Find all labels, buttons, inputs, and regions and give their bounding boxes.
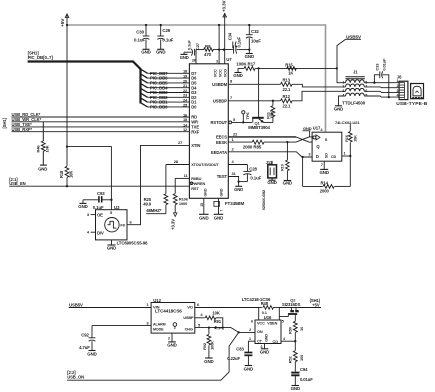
svg-text:GND: GND	[180, 55, 189, 60]
svg-text:GND: GND	[219, 188, 223, 196]
svg-text:C33: C33	[374, 63, 379, 71]
svg-text:0.1uF: 0.1uF	[134, 38, 145, 43]
svg-text:GND: GND	[265, 334, 269, 342]
svg-text:GND: GND	[334, 107, 343, 112]
svg-text:C34: C34	[228, 32, 233, 40]
svg-text:48MHZ*: 48MHZ*	[146, 208, 162, 213]
svg-text:GND: GND	[283, 181, 292, 186]
svg-text:EEDATA: EEDATA	[211, 150, 227, 155]
svg-text:U12: U12	[153, 298, 161, 303]
svg-text:22.1: 22.1	[283, 87, 292, 92]
svg-text:GND: GND	[199, 215, 208, 220]
svg-text:+5V: +5V	[60, 18, 66, 27]
svg-text:22.1: 22.1	[283, 104, 292, 109]
svg-text:TP1: TP1	[217, 325, 225, 330]
svg-text:XTIN: XTIN	[191, 143, 200, 148]
svg-text:C29: C29	[162, 28, 170, 33]
svg-text:PIC_DB0: PIC_DB0	[150, 105, 168, 110]
svg-text:10uF: 10uF	[251, 39, 261, 44]
svg-text:GND: GND	[319, 170, 328, 175]
svg-text:C27: C27	[195, 43, 200, 50]
svg-text:VCO: VCO	[222, 69, 227, 77]
svg-text:100: 100	[299, 355, 304, 361]
svg-text:VCC: VCC	[257, 322, 265, 326]
svg-text:10K: 10K	[45, 145, 50, 152]
svg-text:J6: J6	[397, 75, 402, 80]
svg-text:USB5V: USB5V	[69, 302, 83, 307]
svg-text:USB-TYPE-B: USB-TYPE-B	[396, 101, 428, 107]
svg-text:GND: GND	[233, 73, 242, 78]
svg-text:4: 4	[396, 94, 398, 98]
svg-text:GND: GND	[260, 350, 269, 355]
svg-text:R12: R12	[283, 94, 291, 99]
svg-text:6: 6	[251, 319, 253, 323]
svg-text:C83: C83	[236, 346, 244, 351]
svg-text:R18: R18	[59, 170, 64, 178]
svg-text:D0: D0	[191, 105, 197, 110]
svg-text:5: 5	[282, 319, 284, 323]
svg-text:VO: VO	[187, 304, 193, 309]
svg-text:GND: GND	[204, 188, 208, 196]
svg-text:25: 25	[200, 203, 204, 207]
svg-text:R14: R14	[321, 180, 329, 185]
svg-text:7: 7	[220, 210, 224, 212]
svg-text:TP6: TP6	[245, 112, 250, 120]
svg-text:GND: GND	[291, 386, 300, 391]
svg-text:GND: GND	[38, 167, 47, 172]
svg-text:+3.3V: +3.3V	[171, 219, 176, 230]
svg-text:+3.3V: +3.3V	[221, 1, 226, 12]
svg-text:GND: GND	[245, 54, 254, 59]
svg-text:+5V: +5V	[312, 302, 320, 307]
svg-text:R52: R52	[287, 356, 292, 364]
svg-text:2000 R85: 2000 R85	[243, 144, 262, 149]
svg-text:0.01uF: 0.01uF	[382, 58, 387, 71]
svg-text:OE: OE	[97, 212, 103, 217]
svg-text:ALARM: ALARM	[153, 322, 166, 326]
svg-text:2: 2	[396, 84, 398, 88]
svg-text:C30: C30	[136, 30, 144, 35]
svg-text:RSTOUT: RSTOUT	[210, 120, 227, 125]
svg-text:3: 3	[216, 59, 218, 63]
svg-text:ON: ON	[257, 329, 263, 334]
svg-text:3: 3	[342, 89, 344, 93]
svg-text:C92: C92	[81, 332, 89, 337]
svg-text:GND: GND	[156, 50, 165, 55]
svg-text:SD: SD	[324, 153, 328, 158]
svg-text:C28: C28	[249, 166, 257, 171]
svg-text:GND: GND	[107, 246, 116, 251]
svg-text:1500: 1500	[269, 110, 274, 119]
svg-text:1K: 1K	[288, 71, 293, 76]
svg-text:D: D	[316, 154, 319, 159]
svg-text:PIC_DB[0..7]: PIC_DB[0..7]	[28, 55, 54, 60]
svg-text:CD: CD	[331, 155, 337, 159]
svg-text:USB5V: USB5V	[346, 34, 362, 39]
svg-text:R15: R15	[285, 62, 293, 67]
svg-text:100K R17: 100K R17	[236, 62, 256, 67]
svg-text:2000: 2000	[320, 189, 330, 194]
svg-text:XTOUT/3V3OUT: XTOUT/3V3OUT	[191, 163, 219, 167]
svg-text:49.9: 49.9	[143, 201, 152, 206]
svg-text:TTDLF4500: TTDLF4500	[342, 101, 365, 106]
svg-text:USBP: USBP	[183, 316, 194, 320]
svg-text:R46: R46	[35, 145, 40, 153]
svg-text:U16: U16	[264, 315, 272, 320]
svg-text:[SH1]: [SH1]	[2, 117, 7, 128]
svg-text:GND: GND	[204, 359, 213, 364]
svg-text:R13: R13	[283, 78, 291, 83]
svg-text:GND: GND	[234, 187, 243, 192]
svg-text:R91: R91	[214, 319, 222, 324]
svg-text:MODE: MODE	[153, 327, 164, 331]
svg-text:USB_RXF*: USB_RXF*	[12, 127, 33, 132]
svg-text:GND: GND	[267, 180, 276, 185]
svg-text:SI2316DS: SI2316DS	[282, 302, 301, 307]
svg-text:R92: R92	[202, 342, 207, 350]
svg-text:C32: C32	[251, 29, 259, 34]
svg-text:GND: GND	[214, 215, 223, 220]
svg-text:DIV: DIV	[97, 231, 104, 236]
svg-text:10: 10	[299, 327, 304, 331]
svg-text:GND: GND	[167, 343, 176, 348]
svg-text:3: 3	[261, 345, 263, 349]
svg-text:3: 3	[396, 89, 398, 93]
svg-text:R50: R50	[287, 327, 292, 334]
svg-text:0.1uF: 0.1uF	[162, 38, 173, 43]
svg-text:R9: R9	[205, 44, 211, 49]
svg-text:LTC6905CS5-96: LTC6905CS5-96	[117, 241, 149, 246]
svg-text:CT: CT	[257, 340, 263, 344]
svg-text:CHG: CHG	[185, 327, 193, 331]
svg-text:4.7uF: 4.7uF	[79, 345, 90, 350]
svg-text:VSEN: VSEN	[267, 322, 277, 326]
svg-text:TEST: TEST	[217, 174, 228, 179]
svg-text:0.1uF: 0.1uF	[187, 40, 192, 50]
svg-text:USB_EN: USB_EN	[9, 181, 25, 186]
svg-text:C94: C94	[300, 367, 308, 372]
svg-text:U7: U7	[226, 57, 232, 62]
svg-text:74LCX02-U21: 74LCX02-U21	[335, 120, 360, 125]
svg-text:FT245BM: FT245BM	[225, 201, 245, 206]
svg-text:0.1uF: 0.1uF	[250, 176, 261, 181]
svg-text:1000: 1000	[179, 201, 187, 206]
svg-text:EESK: EESK	[216, 140, 227, 145]
svg-text:USB_ON: USB_ON	[67, 375, 84, 380]
svg-text:2: 2	[342, 85, 344, 89]
svg-text:U2: U2	[114, 205, 120, 210]
svg-text:MMBT3904: MMBT3904	[248, 125, 270, 130]
svg-text:RXF: RXF	[191, 129, 200, 134]
svg-text:1: 1	[396, 79, 398, 83]
svg-text:470: 470	[204, 52, 212, 57]
svg-text:0.1uF: 0.1uF	[93, 205, 104, 210]
svg-text:GND: GND	[78, 204, 87, 209]
svg-text:C93: C93	[97, 191, 105, 196]
svg-text:J1: J1	[353, 70, 358, 75]
svg-text:0.22uF: 0.22uF	[227, 356, 240, 361]
svg-text:100K: 100K	[209, 341, 214, 350]
svg-text:0.01uF: 0.01uF	[300, 377, 313, 382]
svg-text:USBDP: USBDP	[213, 99, 227, 104]
svg-text:7: 7	[321, 162, 323, 167]
svg-text:R16: R16	[345, 135, 349, 142]
svg-text:R19: R19	[280, 164, 284, 171]
svg-text:USBDM: USBDM	[212, 82, 227, 87]
svg-text:CO: CO	[273, 340, 279, 344]
svg-text:RST: RST	[191, 186, 199, 191]
svg-text:10K: 10K	[212, 311, 219, 316]
svg-text:LTC4418CS6: LTC4418CS6	[155, 309, 182, 314]
svg-text:10K: 10K	[69, 171, 74, 178]
svg-text:GND: GND	[244, 366, 253, 371]
svg-text:10K: 10K	[354, 135, 358, 142]
svg-text:92SMX-6B2: 92SMX-6B2	[261, 189, 266, 210]
svg-text:0.1uF: 0.1uF	[237, 37, 242, 48]
svg-text:GND: GND	[87, 351, 96, 356]
svg-text:GND: GND	[141, 50, 150, 55]
